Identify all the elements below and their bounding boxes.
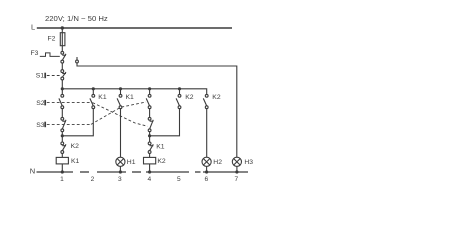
svg-text:220V; 1/N ~ 50 Hz: 220V; 1/N ~ 50 Hz: [45, 14, 108, 23]
svg-text:K1: K1: [156, 144, 165, 151]
lamp H2: [202, 157, 211, 166]
svg-text:L: L: [31, 23, 35, 32]
junction on L at fuse: [61, 26, 64, 29]
svg-text:K2: K2: [185, 94, 194, 101]
lamp H1: [116, 157, 125, 166]
wire from F3 aux to H3 branch: [77, 63, 237, 157]
wire lamp H3 to N: [236, 166, 238, 172]
svg-text:6: 6: [204, 176, 208, 183]
wire lamp H2 to N: [206, 166, 208, 172]
svg-text:S1: S1: [36, 73, 45, 80]
svg-text:K2: K2: [212, 94, 221, 101]
wire S2NC to junction (path4): [149, 132, 151, 142]
node L (phase bus): [37, 27, 232, 29]
svg-text:H2: H2: [213, 159, 222, 166]
svg-text:K1: K1: [126, 94, 135, 101]
svg-text:H3: H3: [244, 159, 253, 166]
pushbutton S1 (NC): [61, 70, 66, 80]
junction N/path1: [61, 170, 64, 173]
lamp H3: [232, 157, 241, 166]
junction bus/path4: [148, 87, 151, 90]
svg-text:5: 5: [177, 176, 181, 183]
junction bus/path3: [119, 87, 122, 90]
junction N/path6: [205, 170, 208, 173]
svg-text:H1: H1: [127, 159, 136, 166]
wire K2NC to coil K1: [61, 153, 63, 157]
contact S3 (NC, path 1): [61, 117, 66, 131]
contact F3 auxiliary (NO, feeds H3): [76, 57, 79, 63]
wire K1NC to coil K2: [149, 153, 151, 157]
svg-text:3: 3: [118, 176, 122, 183]
wire lamp H1 to N: [119, 166, 121, 172]
junction path4/path5: [148, 134, 151, 137]
S3 linkage diagonal to path 4: [91, 102, 146, 124]
contact K2 (NC interlock, path 1): [61, 142, 66, 153]
wire path5 join to path4: [150, 109, 180, 136]
contact K2 (NO, path 5, self hold): [176, 89, 181, 109]
svg-text:K1: K1: [98, 94, 107, 101]
wire path3 to lamp H1: [120, 109, 122, 158]
svg-text:F3: F3: [31, 50, 39, 57]
junction N/path7: [235, 170, 238, 173]
S3 actuator tick: [44, 122, 46, 128]
S2 actuator tick: [44, 100, 46, 106]
coil K1: [56, 157, 68, 164]
svg-text:7: 7: [234, 176, 238, 183]
contact S3 (NO, path 4): [146, 89, 151, 109]
contact K1 (NC interlock, path 4): [148, 142, 153, 153]
svg-text:F2: F2: [48, 36, 56, 43]
svg-text:K2: K2: [71, 143, 80, 150]
wire S2 to S3 contact (path1): [61, 109, 63, 118]
svg-text:K2: K2: [157, 158, 166, 165]
svg-text:S2: S2: [36, 100, 45, 107]
wire coil K2 to N: [149, 164, 151, 172]
wire F3 to S1: [61, 63, 63, 70]
junction N/path3: [119, 170, 122, 173]
contact S2 (NC, path 4): [148, 109, 153, 132]
contact K1 (NO, path 3, lamp H1): [117, 89, 122, 109]
wire path2 join to path1: [62, 109, 93, 136]
junction N/path4: [148, 170, 151, 173]
contact K2 (NO, path 6, lamp H2): [203, 94, 208, 108]
svg-text:K1: K1: [71, 158, 80, 165]
F3 actuator linkage (thermal element bump): [40, 53, 60, 57]
svg-text:N: N: [30, 167, 35, 176]
junction bus/path2: [92, 87, 95, 90]
wire coil K1 to N: [61, 164, 63, 172]
svg-text:S3: S3: [36, 122, 45, 129]
S2 linkage diagonal to path 4: [93, 103, 148, 127]
node N (neutral bus, interrupted): [37, 171, 249, 173]
S1 actuator tick: [44, 73, 46, 79]
S1 linkage dashes: [47, 75, 61, 77]
svg-text:1: 1: [60, 176, 64, 183]
svg-text:4: 4: [147, 176, 151, 183]
wire S3 to junction (path1): [61, 132, 63, 142]
svg-text:2: 2: [91, 176, 95, 183]
fuse F2: [60, 33, 65, 46]
junction path1/path2: [61, 134, 64, 137]
contact F3 (NC thermal overload contact): [61, 51, 66, 63]
S3 linkage dashes: [47, 123, 91, 125]
contact K1 (NO, path 2, self hold): [90, 89, 95, 109]
junction bus/path1: [61, 87, 64, 90]
contact S2 (NO, path 1): [59, 89, 64, 109]
S2 linkage dashes: [47, 102, 92, 104]
wire S1 to control bus: [61, 80, 63, 89]
junction bus/path5: [178, 87, 181, 90]
wire path6 to lamp H2: [206, 109, 208, 158]
control bus: [62, 89, 206, 95]
coil K2: [144, 157, 156, 164]
wire L to fuse F2: [61, 28, 63, 52]
